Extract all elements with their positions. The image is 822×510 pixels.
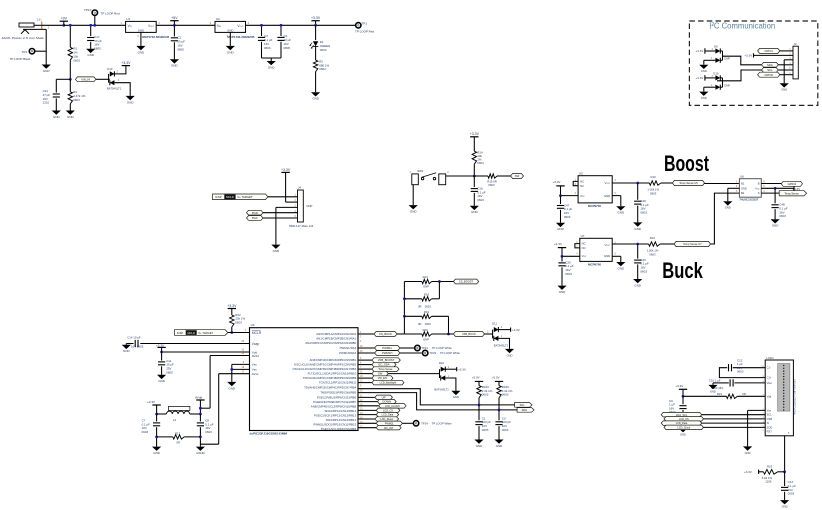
svg-text:FLT32/SCL1/SDA1/RP10/CN16/RB10: FLT32/SCL1/SDA1/RP10/CN16/RB10 [308, 372, 357, 376]
svg-text:C14 10 µF: C14 10 µF [127, 336, 141, 340]
ground under C48 [771, 219, 780, 223]
wire U5 gnd [612, 195, 621, 197]
ground AGND under C8 [196, 447, 205, 451]
capacitor C21 [56, 78, 70, 80]
svg-text:PGEC1/SCL/RP4/CN6/RB4: PGEC1/SCL/RP4/CN6/RB4 [321, 427, 357, 431]
svg-text:+3.3V: +3.3V [458, 367, 466, 371]
ground under R4 [66, 111, 75, 115]
svg-text:GND: GND [680, 433, 686, 437]
svg-text:SW1: SW1 [417, 169, 424, 173]
ground under C2 [170, 59, 179, 63]
svg-text:+5.0V: +5.0V [472, 376, 480, 380]
svg-text:GND: GND [604, 194, 610, 198]
wire row 378 [358, 377, 372, 379]
svg-text:GND: GND [53, 115, 60, 119]
diode D9 BAT54 [715, 48, 720, 53]
svg-text:GND: GND [745, 451, 751, 455]
svg-text:C10 1 µF: C10 1 µF [709, 379, 721, 383]
test point TP24 [413, 421, 418, 426]
svg-text:0603: 0603 [640, 211, 647, 215]
ground under U5 [616, 206, 625, 210]
wire CS_BUCK to ladder [397, 333, 404, 335]
svg-text:SW: SW [378, 372, 383, 376]
net label PWM2L [376, 421, 402, 426]
wire SCL jog [358, 389, 515, 405]
resistor R14 [472, 151, 476, 164]
ground under U7 [616, 262, 625, 266]
svg-text:1206: 1206 [765, 480, 772, 484]
diode D10 BAT54 [715, 75, 720, 80]
temp sensor U5 MCP9700 [578, 176, 612, 203]
capacitor C8 [199, 414, 201, 421]
svg-text:D11: D11 [492, 322, 497, 326]
svg-text:TP LOOP White: TP LOOP White [432, 346, 452, 350]
svg-text:SCL: SCL [767, 413, 773, 417]
power +3.3V SW [470, 136, 478, 138]
wire U6 out B [761, 183, 781, 185]
svg-text:+5V: +5V [171, 16, 178, 20]
svg-text:GND: GND [229, 386, 236, 390]
svg-text:U6: U6 [740, 174, 744, 178]
svg-text:SDA: SDA [767, 63, 773, 67]
wire LCD_Clock to LCD [704, 426, 766, 428]
wire row D16 net [358, 373, 372, 375]
svg-text:GND: GND [618, 211, 625, 215]
resistor R10 [649, 181, 661, 185]
svg-text:GND: GND [268, 65, 275, 69]
svg-text:0603: 0603 [779, 214, 786, 218]
ground under U6 [723, 201, 732, 205]
svg-text:+3.3V: +3.3V [311, 16, 321, 20]
wire PGD to J4 [263, 212, 298, 214]
wire R12 to label [660, 243, 674, 245]
svg-text:ICSP: ICSP [177, 331, 184, 335]
net label PWM1L [375, 346, 400, 351]
svg-text:U1: U1 [126, 17, 130, 21]
svg-text:VIN_HI: VIN_HI [81, 77, 90, 81]
net label VFB_BOOST [372, 358, 400, 363]
net label ICSP MCLR V+ TARGET [213, 194, 269, 200]
wire I2C2_SCL to LCD [702, 414, 766, 416]
svg-text:GND: GND [634, 227, 641, 231]
svg-text:GND: GND [273, 249, 280, 253]
node lower-left junction [69, 78, 72, 81]
net label SDA [762, 62, 779, 67]
resistor R20 [404, 333, 422, 335]
svg-text:0603: 0603 [737, 370, 744, 374]
wire Vdd row [162, 351, 250, 353]
svg-text:GND: GND [127, 100, 134, 104]
svg-text:GND: GND [772, 224, 779, 228]
svg-text:Vcap: Vcap [252, 342, 259, 346]
wire VFB_BUCK to D11 [485, 333, 493, 335]
svg-text:GND: GND [701, 96, 707, 100]
svg-text:TP LOOP Red: TP LOOP Red [101, 11, 120, 15]
wire PWM1H row [358, 352, 375, 354]
svg-text:0603: 0603 [73, 98, 80, 102]
svg-text:0603: 0603 [319, 67, 326, 71]
resistor R12 [649, 242, 661, 246]
wire D10 out [717, 70, 763, 81]
ground under C47 [556, 223, 565, 227]
capacitor C14 [140, 343, 249, 345]
ground at C10 [712, 383, 714, 385]
wire U5 Vout [612, 182, 649, 184]
svg-text:dsPIC33FJ16GS502-E/MM: dsPIC33FJ16GS502-E/MM [250, 432, 288, 436]
svg-text:+3.3V: +3.3V [744, 470, 752, 474]
svg-text:TDO/AN4/CMP2C/CMP3B/RP9/CN9/RB: TDO/AN4/CMP2C/CMP3B/RP9/CN9/RB9 [303, 376, 357, 380]
wire MCLR [228, 332, 250, 334]
svg-text:PWM1L: PWM1L [382, 346, 392, 350]
wire ladder v1 [438, 282, 440, 299]
svg-text:PWM1L/RA3: PWM1L/RA3 [340, 346, 357, 350]
wire Vss rows to gnd [232, 363, 250, 365]
svg-text:0R: 0R [418, 305, 422, 309]
wire U6 gnd [728, 187, 740, 189]
svg-text:0805: 0805 [177, 47, 184, 51]
net label Temp Sense U7 [674, 241, 710, 246]
wire D9 out [723, 56, 764, 65]
capacitor C16 [473, 176, 475, 187]
ground under U1 [136, 46, 145, 50]
svg-text:RST: RST [767, 430, 773, 434]
svg-text:0603: 0603 [482, 393, 489, 397]
svg-text:0603: 0603 [650, 191, 657, 195]
svg-text:Vss: Vss [252, 363, 257, 367]
capacitor C11 [161, 352, 163, 361]
resistor R166 [497, 386, 501, 398]
svg-text:GND: GND [453, 395, 459, 399]
svg-text:GND: GND [782, 505, 788, 509]
svg-text:0603: 0603 [565, 272, 572, 276]
ground under C30 [633, 279, 642, 283]
svg-text:D13: D13 [107, 67, 113, 71]
svg-text:SW: SW [515, 174, 520, 178]
power +3.3V ICSP [281, 171, 289, 173]
svg-text:VR_EN: VR_EN [378, 376, 387, 380]
test point TP23 [423, 350, 428, 355]
svg-text:PGD: PGD [252, 211, 258, 215]
ground under C17 [86, 49, 95, 53]
svg-text:SDA: SDA [522, 408, 528, 412]
svg-text:U5: U5 [579, 171, 583, 175]
svg-text:0805: 0805 [284, 46, 291, 50]
svg-text:NC: NC [582, 246, 586, 250]
svg-text:AVdd: AVdd [252, 354, 259, 358]
svg-text:0603: 0603 [73, 58, 80, 62]
capacitor C10 [734, 382, 765, 384]
ground under Vss [227, 382, 236, 386]
wire +3.3V to J4 pin2 [286, 201, 298, 203]
resistor R15 [474, 175, 488, 177]
net label LCD_Data [376, 412, 398, 417]
svg-text:LCD_Reset: LCD_Reset [380, 418, 393, 421]
capacitor C2 [173, 25, 175, 36]
wire row 419 [358, 418, 375, 420]
svg-text:SOD: SOD [767, 425, 773, 429]
svg-text:+3.3V: +3.3V [121, 61, 131, 65]
svg-text:LCD_CLOCK: LCD_CLOCK [385, 405, 400, 408]
wire row 410 [358, 409, 376, 411]
resistor R19 [404, 315, 422, 317]
svg-text:NC: NC [580, 184, 584, 188]
ground under C21 [52, 111, 61, 115]
svg-text:DNP: DNP [307, 204, 313, 208]
net label CS_BUCK [374, 332, 397, 337]
svg-text:+3.3V: +3.3V [470, 132, 480, 136]
net label GPIO0 [758, 72, 780, 77]
ground under C11 [157, 375, 166, 379]
wire CS_BUCK row [358, 333, 374, 335]
resistor R21 [683, 395, 726, 397]
svg-text:ICSP: ICSP [215, 195, 222, 199]
wire +3.3V to U5 Vdd [561, 195, 579, 197]
svg-text:TMS/PGED3/RP5/CN8/RB5: TMS/PGED3/RP5/CN8/RB5 [320, 391, 356, 395]
svg-text:LCD1: LCD1 [766, 356, 774, 360]
ground under C3 C4 [267, 61, 276, 65]
svg-text:0805: 0805 [166, 370, 173, 374]
svg-text:+3.3V: +3.3V [147, 400, 156, 404]
wire row 382 [358, 382, 372, 384]
wire row Temp Sense [358, 368, 372, 370]
wire rail U1 to U2 [156, 24, 215, 26]
svg-text:R13: R13 [423, 275, 429, 279]
resistor R17 [157, 436, 173, 438]
svg-text:Buck: Buck [662, 258, 703, 283]
svg-text:GND: GND [471, 210, 478, 214]
svg-text:GND: GND [43, 69, 50, 73]
capacitor C3cap [498, 410, 500, 420]
svg-text:R21: R21 [717, 392, 723, 396]
svg-text:MCP1702-5002E/CB: MCP1702-5002E/CB [142, 35, 169, 39]
svg-text:Vss: Vss [767, 408, 772, 412]
svg-text:0603: 0603 [264, 46, 271, 50]
svg-text:+3.3V: +3.3V [696, 49, 704, 53]
svg-text:Temp Sense U7: Temp Sense U7 [683, 242, 702, 246]
svg-text:16V 0805: 16V 0805 [131, 345, 144, 349]
svg-text:0603: 0603 [502, 428, 509, 432]
wire R13 to CS_BOOST [432, 281, 454, 283]
svg-text:0603: 0603 [788, 492, 795, 496]
inductor L3 [157, 413, 167, 415]
ground under C9 [678, 428, 687, 432]
wire AVss route [219, 373, 250, 375]
svg-text:R12: R12 [650, 236, 656, 240]
svg-text:GND: GND [506, 353, 512, 357]
net label LCD_Data [661, 421, 702, 426]
svg-text:GND: GND [171, 64, 178, 68]
svg-text:0603: 0603 [320, 48, 327, 52]
svg-text:V+ TARGET: V+ TARGET [237, 195, 253, 199]
net label VFB_BUCK [453, 332, 484, 337]
svg-text:GND: GND [710, 389, 716, 393]
svg-text:0603: 0603 [425, 305, 432, 309]
svg-text:GND: GND [158, 379, 165, 383]
wire J4 pin3 to ground [276, 206, 298, 208]
power +3.3V at D16 [445, 368, 456, 370]
net label LCD_Reset [375, 417, 399, 421]
wire U7 Vout [612, 243, 648, 245]
svg-text:D16: D16 [439, 361, 445, 365]
wire ladder v2 [448, 316, 450, 334]
net label GPIO1 [758, 48, 780, 53]
power +3.3V at D13 [114, 66, 126, 74]
capacitor C12 [733, 367, 765, 369]
svg-text:PGC: PGC [252, 216, 258, 220]
svg-text:0603: 0603 [142, 430, 149, 434]
svg-text:AN3/CMP1D/CMP2D/RP0/CN5/RB1: AN3/CMP1D/CMP2D/RP0/CN5/RB1 [310, 358, 357, 362]
svg-text:GPIO2: GPIO2 [788, 182, 797, 186]
svg-text:TP LOOP Red: TP LOOP Red [355, 29, 374, 33]
svg-text:MCLR: MCLR [252, 331, 262, 335]
net label Temp Sense flag [779, 191, 806, 196]
net label SCL mcu [515, 403, 533, 408]
svg-text:0R: 0R [418, 322, 422, 326]
svg-text:TP23: TP23 [429, 351, 436, 355]
svg-text:Boost: Boost [664, 151, 709, 176]
net label VR_EN [372, 376, 393, 381]
wire LCD_Data to LCD [702, 422, 766, 424]
ground under U2 [226, 46, 235, 50]
wire LCD_CS to LCD [704, 418, 766, 420]
net label LCD_CS [376, 408, 400, 413]
net label CS_SENSE [372, 362, 396, 367]
svg-text:PWM1H: PWM1H [382, 351, 392, 355]
test point TP10 [92, 10, 97, 15]
svg-text:CS_BUCK: CS_BUCK [379, 332, 392, 336]
svg-text:J2: J2 [794, 42, 797, 46]
wire PWM1L row [358, 347, 375, 349]
wire U6 S out [761, 192, 779, 194]
svg-text:0603: 0603 [477, 161, 484, 165]
svg-text:CSB: CSB [767, 417, 773, 421]
wire rail U2 to TP1 [246, 24, 356, 26]
svg-text:TP4: TP4 [22, 50, 28, 54]
svg-text:TDI/AN5/CMP2D/CMP4C/RP3/CN7/RB: TDI/AN5/CMP2D/CMP4C/RP3/CN7/RB4 [304, 386, 356, 390]
wire J2 gnd [784, 59, 793, 61]
wire C3 C4 join [262, 57, 282, 59]
svg-text:+3.3V: +3.3V [512, 328, 520, 332]
svg-text:I2C_INT: I2C_INT [384, 427, 394, 430]
ground under ICSP [271, 245, 280, 249]
svg-text:R17: R17 [175, 431, 181, 435]
svg-text:GND: GND [123, 349, 130, 353]
svg-text:GND: GND [604, 254, 610, 258]
svg-text:BAT54SLT1: BAT54SLT1 [107, 86, 122, 90]
svg-text:LCD_Backlight: LCD_Backlight [380, 382, 397, 385]
svg-text:GND: GND [781, 88, 787, 92]
wire row 405 [358, 405, 379, 407]
svg-text:0R: 0R [742, 392, 746, 396]
wire AVdd route [210, 355, 249, 357]
svg-text:0603: 0603 [205, 430, 212, 434]
svg-text:MCP9700: MCP9700 [588, 262, 601, 266]
svg-text:GPIO1: GPIO1 [764, 49, 773, 53]
svg-text:LCD_CS: LCD_CS [679, 418, 689, 421]
wire row 401 [358, 401, 377, 403]
svg-text:NC: NC [580, 180, 584, 184]
svg-text:J4: J4 [298, 186, 301, 190]
net label PGD [247, 210, 264, 215]
svg-text:AGND: AGND [196, 451, 205, 455]
svg-text:+5.0V: +5.0V [492, 376, 500, 380]
svg-text:0603: 0603 [640, 269, 647, 273]
svg-text:GND: GND [153, 451, 160, 455]
wire PWM1L to TP21 [400, 347, 414, 349]
svg-text:AN1/CMP1B/CMP2B/CN3/RA1: AN1/CMP1B/CMP2B/CN3/RA1 [316, 337, 356, 341]
connector J1 barrel jack [19, 23, 34, 27]
svg-text:AVss: AVss [252, 372, 259, 376]
wire LCD Vss gnd [748, 409, 766, 411]
power +3.3V at D11 [498, 329, 510, 331]
svg-text:TP LOOP White: TP LOOP White [440, 351, 460, 355]
wire U2 gnd [229, 32, 231, 46]
ground under C13 [780, 500, 789, 504]
svg-text:0603: 0603 [649, 252, 656, 256]
svg-text:Vout: Vout [767, 381, 772, 385]
svg-text:L3: L3 [173, 418, 177, 422]
wire PWM1H to TP23 [400, 352, 422, 354]
svg-text:AN0/CMP1A/CMP2A/CN2/RA0: AN0/CMP1A/CMP2A/CN2/RA0 [316, 332, 356, 336]
microcontroller U3 dsPIC33 box [250, 328, 359, 431]
svg-text:+3.3V: +3.3V [281, 168, 291, 172]
svg-text:MCLR: MCLR [188, 331, 195, 335]
svg-text:GPIO0: GPIO0 [764, 73, 773, 77]
regulator U2 MCP1702-3.3 [215, 21, 246, 32]
net label DOWN [377, 399, 396, 404]
svg-text:GND: GND [67, 115, 74, 119]
svg-text:LCD_Clock: LCD_Clock [678, 426, 691, 429]
svg-text:I2C_SDA: I2C_SDA [378, 363, 390, 367]
svg-text:0603: 0603 [488, 183, 495, 187]
svg-text:+3.3V: +3.3V [552, 180, 561, 184]
diode D13 BAT54SLT1 [108, 74, 110, 83]
svg-text:VFB_BUCK: VFB_BUCK [462, 332, 476, 336]
svg-text:GND: GND [557, 227, 564, 231]
svg-text:TP24: TP24 [421, 422, 428, 426]
net label SW [511, 174, 524, 179]
wire pill to TP24 [402, 422, 412, 424]
svg-text:BAT54SLT1: BAT54SLT1 [434, 387, 449, 391]
power +9V [60, 20, 68, 22]
resistor R1 [69, 25, 71, 47]
net label SCL [762, 68, 779, 73]
capacitor C3 [261, 25, 263, 36]
svg-text:SCL: SCL [520, 403, 526, 407]
svg-text:74LVC1G3157: 74LVC1G3157 [739, 198, 758, 202]
wire R10 to label [661, 182, 673, 184]
svg-text:HDR-127 Male 1x6: HDR-127 Male 1x6 [289, 224, 314, 228]
wire SCL to J2 [778, 69, 793, 71]
svg-text:LCD_Data: LCD_Data [382, 414, 394, 417]
capacitor C46 [637, 183, 639, 200]
net label Temp Sense U5 [672, 180, 704, 185]
svg-text:R23: R23 [767, 464, 773, 468]
ground under jack [42, 65, 51, 69]
wire U7 NC tie [575, 244, 580, 248]
LCD module LCD1 box [765, 360, 793, 436]
test point TP4 [29, 49, 34, 54]
svg-text:VFB_BOOST: VFB_BOOST [378, 358, 395, 362]
svg-text:GND: GND [725, 206, 731, 210]
wire U5 NC tie [573, 181, 578, 185]
net label LCD_CS [664, 417, 704, 422]
wire SW1 to ground [412, 185, 414, 205]
svg-text:GND: GND [496, 444, 503, 448]
wire jack to rail [34, 24, 42, 26]
resistor R23 [763, 469, 777, 474]
svg-text:GND: GND [618, 266, 625, 270]
